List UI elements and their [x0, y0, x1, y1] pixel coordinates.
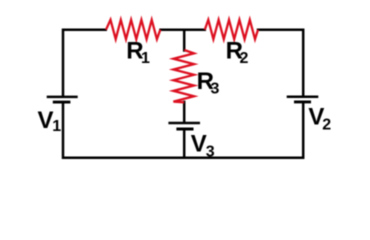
svg-text:1: 1 — [141, 50, 150, 67]
svg-text:2: 2 — [240, 50, 249, 67]
svg-text:3: 3 — [211, 81, 220, 98]
svg-text:3: 3 — [206, 144, 215, 161]
svg-text:V: V — [38, 107, 54, 134]
svg-text:V: V — [191, 130, 207, 157]
svg-text:1: 1 — [52, 118, 61, 135]
svg-text:2: 2 — [322, 117, 331, 134]
